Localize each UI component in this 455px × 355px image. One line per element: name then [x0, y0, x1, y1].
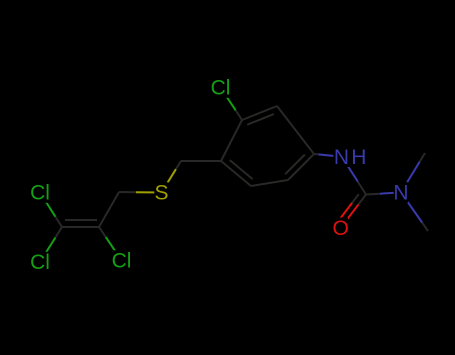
label O (carbonyl O): [333, 217, 349, 240]
bond C2-Cl (bottom-middle Cl): [99, 227, 122, 261]
bond NH-C3 (urea N-C): [342, 157, 366, 195]
bond C1-Cl (bottom-left Cl): [40, 227, 62, 262]
bond CH2b-ring: [181, 160, 221, 162]
benzene edge C-D (double): [288, 154, 314, 180]
bond N2-CH3 (upper methyl): [401, 153, 425, 192]
svg-text:Cl: Cl: [30, 251, 50, 274]
label Cl (bottom-middle chlorine): [110, 250, 134, 273]
label NH (anilide N-H): [333, 146, 369, 169]
svg-text:S: S: [154, 182, 168, 205]
bond S-CH2b: [162, 161, 182, 193]
bond ring A - Cl (ring chlorine): [221, 88, 243, 121]
benzene edge F-A: [221, 120, 242, 161]
benzene edge A-B (double): [242, 106, 277, 120]
benzene inner line E-F: [230, 160, 253, 179]
benzene edge B-C: [277, 106, 314, 154]
bond C1=C2 (vinylidene C=C, double): [62, 220, 99, 227]
benzene edge D-E: [251, 180, 288, 186]
bond CH2a-S: [119, 191, 162, 194]
bond C3=O (carbonyl, double): [337, 194, 367, 228]
label Cl (bottom-left chlorine): [28, 251, 52, 274]
svg-text:Cl: Cl: [30, 182, 50, 205]
svg-text:O: O: [333, 217, 349, 240]
bond N2-CH3 (lower methyl): [401, 192, 428, 231]
svg-text:NH: NH: [334, 146, 369, 169]
benzene inner line A-B: [247, 114, 274, 125]
bond ring C - NH: [314, 154, 342, 157]
bond C3-N2: [366, 192, 401, 194]
label Cl (ring chlorine): [209, 77, 233, 100]
label S (thioether sulfur): [154, 182, 168, 205]
label N (dimethylamino N): [393, 182, 408, 205]
svg-text:Cl: Cl: [211, 77, 231, 100]
bond C1-Cl (top-left Cl): [40, 193, 62, 228]
benzene inner line C-D: [285, 155, 305, 175]
benzene edge E-F (double): [221, 161, 251, 186]
label Cl (top-left chlorine): [28, 182, 52, 205]
svg-text:Cl: Cl: [112, 250, 132, 273]
bond C2-CH2a: [99, 192, 119, 227]
svg-text:N: N: [393, 182, 408, 205]
